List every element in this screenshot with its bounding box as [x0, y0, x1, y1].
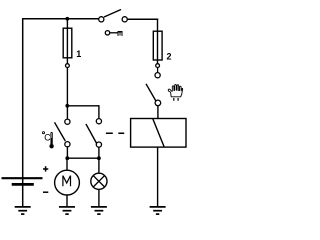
motor letter M [63, 176, 71, 187]
switch S2 blade (open) [55, 122, 66, 141]
node: junction dot on top bus above fuse 1 [65, 17, 69, 21]
battery negative plate [12, 183, 34, 186]
svg-text:1: 1 [76, 49, 81, 59]
wire: vertical into fuse 2 [157, 19, 159, 64]
wire: terminal to switch S4 top contact [157, 68, 159, 73]
diagonal inside box [153, 119, 164, 147]
switch S2 (thermal) top contact [65, 119, 70, 124]
terminal circle below fuse 1 [66, 64, 70, 68]
wire: box to ground [157, 147, 159, 206]
ground (right branch) [150, 207, 166, 214]
wire: motor to ground [66, 195, 68, 206]
wire: node C down to motor [66, 158, 68, 170]
wire: horizontal branch from node B to lamp branch [67, 105, 99, 107]
lamp cross [93, 176, 104, 187]
node D: junction dot above lamp [97, 156, 101, 160]
fuse 2 body [153, 31, 162, 60]
fuse 1 body [63, 28, 72, 58]
motor M body [55, 170, 80, 195]
ground (motor) [59, 207, 75, 214]
hand icon (manual actuation) [168, 84, 182, 100]
wire: vertical drop to switch S2 top terminal [66, 106, 68, 119]
label + [43, 166, 48, 171]
wire: lamp to ground [98, 189, 100, 206]
wire: left vertical from top bus down through battery [22, 18, 24, 206]
node C: junction dot above motor [65, 156, 69, 160]
switch S1 (ignition) left contact [99, 17, 104, 22]
switch S1 right contact [122, 17, 127, 22]
key icon (key actuation) [105, 31, 122, 36]
switch S3 blade (open) [86, 124, 97, 143]
wire: vertical feed from top bus through fuse 1 to terminal [66, 19, 68, 64]
wire: S2 bottom to node C [66, 147, 68, 158]
wire: node D down to lamp [98, 158, 100, 173]
wire: bottom bus between motor and lamp branches [67, 157, 99, 159]
terminal circle below fuse 2 [156, 64, 160, 68]
mechanical link dashes [106, 132, 124, 134]
node B: junction dot above switches [65, 104, 69, 108]
wire: S4 bottom to resistor box [157, 106, 159, 119]
switch S3 top contact [96, 119, 101, 124]
wire: vertical from fuse 1 terminal down to node B [66, 68, 68, 106]
lamp body [91, 173, 107, 189]
battery positive plate [2, 177, 43, 179]
wire: top horizontal bus from left corner to switch S1 left terminal [23, 18, 99, 20]
resistor box (blower resistor) [131, 119, 186, 148]
ground (battery) [15, 207, 31, 214]
wire: vertical drop to switch S3 top terminal [98, 105, 100, 118]
label °C [43, 132, 45, 134]
svg-text:C: C [44, 132, 51, 142]
switch S1 blade (open) [104, 10, 121, 18]
thermometer icon (temperature actuation) [49, 132, 53, 148]
svg-text:2: 2 [167, 52, 172, 62]
switch S3 bottom contact [96, 142, 101, 147]
switch S4 top contact [155, 73, 160, 78]
label - [43, 191, 48, 193]
switch S4 blade (open) [146, 84, 156, 101]
ground (lamp) [91, 207, 107, 214]
switch S2 bottom contact [65, 142, 70, 147]
switch S4 bottom contact [155, 100, 161, 106]
wire: S3 bottom to node D [98, 147, 100, 158]
wire: S1 right contact to right branch corner [127, 18, 158, 20]
